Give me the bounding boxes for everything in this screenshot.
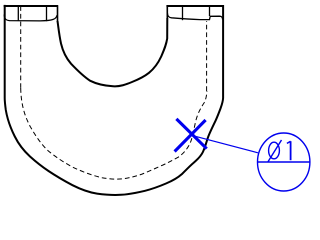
left port inner bore tick A xyxy=(17,7,19,21)
right port inner bore tick B xyxy=(209,7,211,16)
dashed sweep centerline curve xyxy=(21,88,207,179)
balloon circle xyxy=(258,133,310,191)
dashed sweep centerline left vertical xyxy=(20,6,22,88)
right port top edge xyxy=(166,5,223,7)
text digit 1 xyxy=(287,141,291,160)
text diameter symbol xyxy=(268,140,282,162)
left port right edge xyxy=(57,5,59,22)
right port inner bore tick A xyxy=(182,7,184,20)
left port bottom rim xyxy=(4,15,57,21)
dashed sweep centerline right vertical xyxy=(206,21,208,91)
leader line xyxy=(192,135,258,153)
right port left edge xyxy=(166,5,168,18)
right port bottom rim xyxy=(167,13,222,20)
outer silhouette: right edge down around bottom to left xyxy=(5,5,223,195)
balloon chord line xyxy=(258,161,311,163)
left port inner bore tick B xyxy=(46,7,48,21)
inner U arc xyxy=(58,18,168,86)
blue X marker stroke 2 xyxy=(175,120,206,152)
blue X marker stroke 1 xyxy=(176,119,206,149)
left port top edge xyxy=(4,5,58,7)
